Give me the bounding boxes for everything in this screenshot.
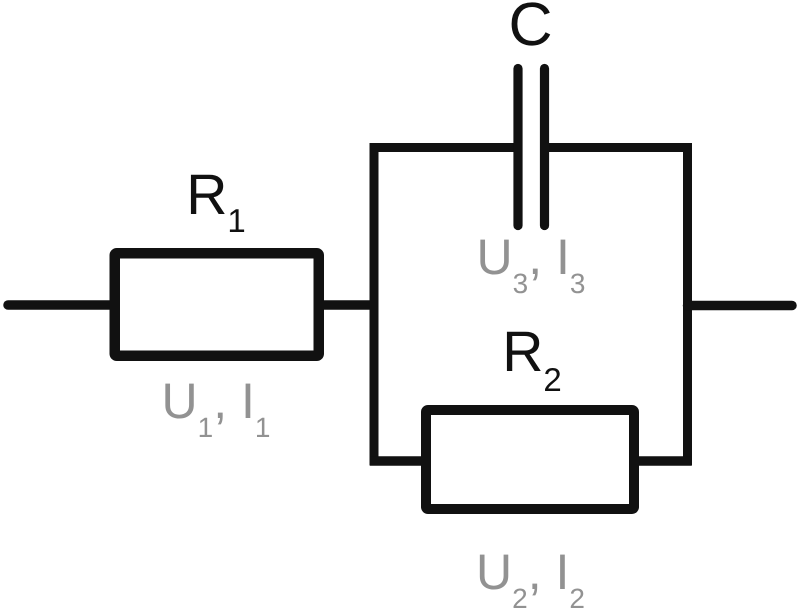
- svg-text:C: C: [508, 0, 552, 58]
